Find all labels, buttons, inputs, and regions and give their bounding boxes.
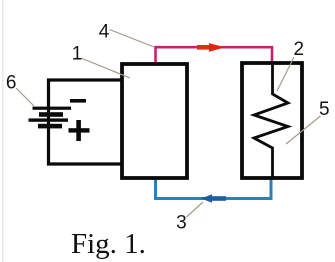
svg-text:3: 3 (176, 213, 187, 234)
svg-text:2: 2 (294, 39, 305, 60)
svg-text:Fig. 1.: Fig. 1. (71, 228, 146, 260)
svg-text:1: 1 (72, 44, 83, 65)
svg-text:5: 5 (319, 99, 330, 120)
svg-text:6: 6 (6, 73, 17, 94)
svg-text:4: 4 (99, 22, 110, 43)
